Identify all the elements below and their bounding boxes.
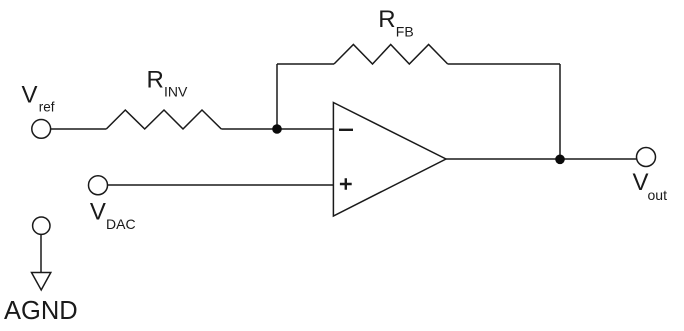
terminal Vdac [89, 176, 108, 195]
wire node A up [276, 64, 278, 129]
svg-text:ref: ref [39, 100, 55, 115]
svg-text:V: V [633, 169, 649, 196]
terminal Vref [32, 119, 51, 138]
terminal Vout [637, 148, 656, 167]
op-amp plus pin [340, 178, 352, 190]
label Vref [22, 81, 55, 114]
svg-text:V: V [22, 81, 38, 108]
wire Rinv to op-amp inverting input [221, 128, 333, 130]
svg-text:AGND: AGND [4, 297, 78, 325]
op-amp minus pin [339, 129, 353, 131]
label R_FB value [378, 6, 413, 40]
svg-text:DAC: DAC [106, 216, 136, 232]
label R_INV value [147, 66, 189, 99]
svg-text:R: R [147, 66, 164, 93]
svg-text:V: V [90, 199, 106, 226]
svg-text:FB: FB [396, 24, 414, 40]
wire feedback down to output [559, 64, 561, 159]
resistor R_FB [334, 45, 448, 65]
svg-text:out: out [648, 187, 668, 203]
node output junction dot [555, 155, 565, 165]
svg-text:INV: INV [164, 83, 188, 99]
label Vout [633, 169, 668, 203]
resistor R_INV [106, 110, 221, 129]
wire feedback top left [277, 63, 334, 65]
wire Vdac to op-amp non-inverting input [107, 184, 333, 186]
wire AGND [40, 235, 42, 273]
terminal AGND [33, 217, 50, 234]
label Vdac [90, 199, 136, 233]
wire op-amp output [446, 158, 638, 160]
ground AGND symbol [32, 273, 51, 291]
svg-text:R: R [378, 6, 395, 33]
op-amp U1 [333, 103, 446, 217]
node A junction dot [272, 124, 282, 134]
wire Vref to Rinv [50, 128, 106, 130]
wire feedback top right [448, 63, 560, 65]
